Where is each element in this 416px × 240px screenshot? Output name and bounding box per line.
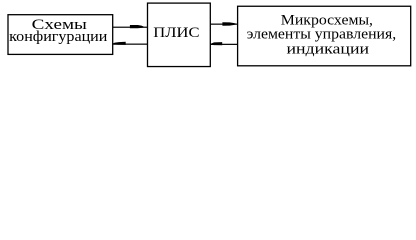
svg-text:конфигурации: конфигурации (9, 29, 107, 45)
svg-text:индикации: индикации (287, 42, 370, 58)
svg-text:ПЛИС: ПЛИС (153, 25, 199, 41)
svg-text:элементы управления,: элементы управления, (247, 27, 397, 43)
